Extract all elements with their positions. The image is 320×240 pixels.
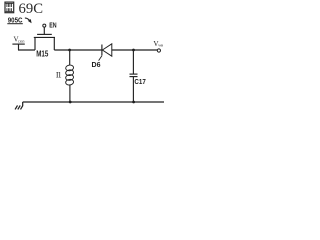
junction inductor to rail [69,101,72,104]
wire inductor to ground rail [69,84,71,102]
capacitor C17 bottom plate [130,76,138,78]
diode D6 triangle [102,44,111,56]
wire capacitor to ground rail [132,77,134,102]
wire EN gate lead [43,27,45,34]
svg-text:M15: M15 [36,50,49,59]
leader arrow from 905C [25,18,32,23]
svg-text:VWB: VWB [153,40,163,48]
transistor M15 source vertical [34,37,36,50]
svg-text:D6: D6 [92,60,101,69]
svg-text:69C: 69C [19,1,43,17]
net VDD5 T-bar [12,43,24,45]
svg-text:EN: EN [49,21,56,30]
wire drain to diode [54,49,102,51]
output terminal circle VWB [157,49,160,52]
svg-text:C17: C17 [134,77,145,86]
diode D6 cathode bar [101,45,103,56]
svg-text:VDD5: VDD5 [14,36,25,44]
junction switch node [68,49,71,52]
pin EN terminal circle [43,24,46,27]
wire VDD5 to source [18,49,35,51]
wire output node down to capacitor [132,50,134,74]
svg-text:I1: I1 [56,71,62,80]
wire VDD5 down [18,44,20,50]
junction output node [132,49,135,52]
inductor I1 coil [65,65,74,86]
transistor M15 channel bar [34,36,55,38]
ground symbol [15,102,23,109]
transistor M15 gate plate [37,33,52,35]
wire switch node down to inductor [69,50,71,65]
figure title glyph 图 [5,2,14,13]
junction capacitor to rail [132,101,135,104]
wire diode to output [112,49,157,51]
diode label leader line [99,56,102,61]
transistor M15 drain vertical [53,37,55,50]
ground rail wire [23,101,164,103]
capacitor C17 top plate [130,73,138,75]
underline of 905C [7,23,22,25]
